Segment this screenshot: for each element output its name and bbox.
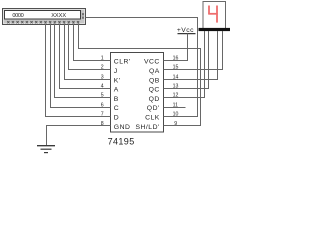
wire pin4 A: [60, 24, 111, 89]
IC right pin numbers: [173, 56, 179, 127]
word generator right pin marks: [82, 13, 84, 18]
7-segment digit 4 (red): [208, 6, 218, 23]
wire pin7 D: [46, 24, 111, 117]
svg-text:QA: QA: [149, 68, 160, 75]
svg-text:74195: 74195: [108, 136, 135, 146]
svg-text:QC: QC: [149, 87, 160, 94]
wire pin15 QA: [164, 31, 223, 70]
svg-text:D: D: [114, 115, 119, 122]
svg-text:XXXX: XXXX: [51, 13, 66, 19]
svg-text:J: J: [114, 68, 118, 75]
wire pin16 VCC: [164, 34, 188, 61]
IC left pin labels: [114, 59, 131, 131]
wire pin1 CLR': [74, 24, 111, 61]
+Vcc power symbol: [177, 27, 196, 34]
wire pin2 J: [69, 24, 111, 70]
7-segment display pins: [205, 31, 223, 36]
wire pin3 K': [65, 24, 111, 80]
wire pin6 C: [51, 24, 111, 108]
wire pin9 SH/LD': [79, 24, 201, 126]
word generator bottom pin marks: [7, 21, 79, 23]
svg-text:GND: GND: [114, 124, 131, 131]
wire pin12 QD: [164, 31, 205, 98]
wire pin8 GND to ground: [47, 126, 111, 146]
svg-text:K': K': [114, 77, 121, 84]
IC U1 74195 body: [111, 53, 164, 133]
word generator XWG1 body: [3, 9, 86, 25]
word generator screen: [5, 11, 81, 20]
svg-text:CLK: CLK: [145, 115, 160, 122]
wire pin14 QB: [164, 31, 218, 80]
svg-text:VCC: VCC: [144, 59, 160, 66]
ground symbol: [37, 146, 55, 153]
svg-text:B: B: [114, 96, 119, 103]
wire pin13 QC: [164, 31, 209, 89]
svg-text:C: C: [114, 105, 119, 112]
svg-text:QD': QD': [147, 105, 160, 112]
svg-text:CLR': CLR': [114, 59, 131, 66]
IC right pin labels: [135, 59, 159, 131]
svg-text:SH/LD': SH/LD': [135, 124, 159, 131]
svg-text:A: A: [114, 87, 119, 94]
svg-text:QD: QD: [149, 96, 160, 103]
wire pin10 CLK: [86, 18, 198, 117]
svg-text:0000: 0000: [12, 13, 23, 19]
svg-text:QB: QB: [149, 77, 160, 84]
wire pin11 QD' stub: [164, 107, 186, 109]
IC left pin numbers: [101, 56, 104, 127]
wire pin5 B: [55, 24, 111, 98]
7-segment display connector bar: [199, 28, 231, 31]
7-segment display U2 body: [203, 2, 226, 29]
